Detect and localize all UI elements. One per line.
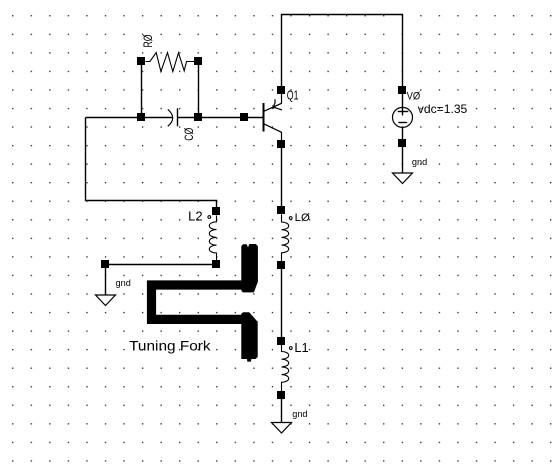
junction square Q1 collector [277, 86, 285, 94]
transistor Q1 emitter lead [264, 90, 282, 111]
svg-text:gnd: gnd [116, 278, 131, 289]
svg-text:L2: L2 [188, 209, 203, 223]
ground left [96, 295, 116, 306]
svg-text:gnd: gnd [412, 157, 427, 168]
junction square R0 right [194, 57, 202, 65]
wire emitter to L0 [281, 144, 283, 210]
junction square L1 top [277, 337, 285, 345]
wire L2 to gnd [106, 264, 217, 266]
wire collector drop [281, 14, 283, 90]
inductor L2 coil [209, 216, 216, 262]
V0 minus sign [398, 122, 407, 124]
junction square L1 bottom [277, 391, 285, 399]
junction square Q1 emitter [277, 140, 285, 148]
ground V0 [393, 173, 413, 184]
wire top rail [281, 14, 403, 16]
svg-text:RØ: RØ [143, 34, 155, 47]
junction square R0 left [137, 57, 145, 65]
wire V0 drop [402, 14, 404, 90]
junction square L2 top [212, 207, 220, 215]
svg-text:L1: L1 [294, 341, 308, 355]
junction square L0 bottom [277, 261, 285, 269]
resistor R0 zigzag [146, 53, 195, 72]
svg-text:LØ: LØ [295, 212, 311, 224]
wire V0 plus stub [402, 90, 404, 115]
junction square C0 left [137, 113, 145, 121]
svg-text:Q1: Q1 [287, 88, 299, 103]
wire R0 right leg [198, 62, 200, 118]
wire R0 left leg [141, 62, 143, 118]
wire L1 to gnd [281, 395, 283, 423]
wire V0 to gnd [402, 127, 404, 173]
tuning fork yoke [152, 285, 243, 319]
wire gnd drop [105, 265, 107, 296]
tuning fork top tine [241, 244, 258, 292]
junction square Q1 base [240, 113, 248, 121]
voltage source V0 circle [393, 107, 413, 127]
capacitor C0 curved plate [168, 109, 173, 126]
wire L0 to L1 [281, 265, 283, 341]
wire feedback loop [86, 118, 217, 212]
svg-text:Tuning Fork: Tuning Fork [129, 338, 211, 353]
inductor L0 coil [282, 214, 289, 261]
junction square L0 top [277, 206, 285, 214]
junction square V0 plus [398, 86, 406, 94]
svg-text:CØ: CØ [184, 128, 196, 141]
svg-text:vdc=1.35: vdc=1.35 [418, 102, 468, 116]
junction square gnd left [101, 260, 109, 268]
junction square C0 right [194, 113, 202, 121]
transistor Q1 emitter arrow [273, 99, 282, 110]
svg-text:gnd: gnd [292, 409, 307, 420]
transistor Q1 collector lead [264, 124, 282, 144]
tuning fork bottom tine [241, 312, 257, 361]
transistor Q1 base bar [263, 103, 265, 132]
pin circle L2 [208, 216, 211, 219]
wire base [178, 117, 264, 119]
capacitor C0 straight plate [177, 108, 179, 126]
pin circle L1 [289, 347, 292, 350]
inductor L1 coil [282, 345, 289, 392]
ground L1 [272, 423, 292, 434]
junction square L2 bottom [212, 260, 220, 268]
V0 plus sign [398, 111, 409, 113]
svg-text:VØ: VØ [407, 90, 421, 102]
wire capacitor left [86, 117, 173, 119]
pin circle L0 [289, 217, 292, 220]
junction square V0 minus [398, 139, 406, 147]
